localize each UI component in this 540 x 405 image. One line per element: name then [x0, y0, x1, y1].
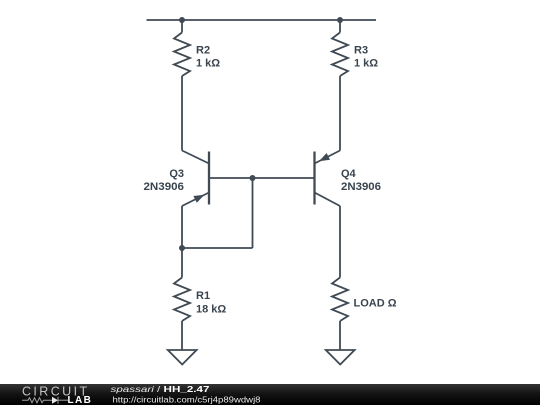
wire R1 top	[181, 248, 183, 278]
wire Q4 collector down	[339, 206, 341, 278]
resistor LOAD	[332, 278, 348, 322]
wire Q3 emitter down	[181, 206, 183, 248]
svg-text:Q4: Q4	[341, 168, 357, 180]
wire node down from base	[252, 178, 254, 248]
svg-text:1 kΩ: 1 kΩ	[196, 58, 220, 70]
transistor Q4	[315, 151, 341, 207]
wire R1 bottom	[181, 321, 183, 350]
svg-text:R3: R3	[354, 45, 368, 57]
svg-text:1 kΩ: 1 kΩ	[354, 58, 378, 70]
logo diode triangle	[52, 397, 58, 404]
footer bar	[0, 384, 540, 405]
node base bus	[250, 175, 256, 181]
wire R2 bottom to Q3 collector	[181, 76, 183, 151]
wire node horizontal	[182, 247, 253, 249]
wire R2 top stub	[181, 20, 183, 33]
svg-text:18 kΩ: 18 kΩ	[196, 304, 226, 316]
node emitter-R1	[179, 245, 185, 251]
svg-text:R2: R2	[196, 45, 210, 57]
node rail-R3	[337, 17, 343, 23]
wire LOAD bottom	[339, 321, 341, 350]
svg-text:Q3: Q3	[169, 168, 184, 180]
svg-text:R1: R1	[196, 290, 210, 302]
svg-text:2N3906: 2N3906	[341, 181, 381, 193]
resistor R1	[174, 278, 190, 322]
logo wire with resistor and diode	[22, 397, 68, 404]
svg-text:2N3906: 2N3906	[144, 181, 185, 193]
wire R3 bottom to Q4 emitter	[339, 76, 341, 151]
ground right	[326, 350, 355, 365]
resistor R2	[174, 33, 190, 77]
wire base bus Q3 to Q4	[209, 177, 315, 179]
wire top rail	[147, 19, 377, 21]
svg-text:http://circuitlab.com/c5rj4p89: http://circuitlab.com/c5rj4p89wdwj8	[113, 395, 261, 405]
svg-text:spassari / HH_2.47: spassari / HH_2.47	[111, 384, 210, 394]
node rail-R2	[179, 17, 185, 23]
resistor R3	[332, 33, 348, 77]
wire R3 top stub	[339, 20, 341, 33]
ground left	[168, 350, 197, 365]
svg-text:LOAD Ω: LOAD Ω	[354, 298, 397, 310]
svg-text:LAB: LAB	[68, 395, 93, 405]
transistor Q3	[182, 151, 209, 207]
